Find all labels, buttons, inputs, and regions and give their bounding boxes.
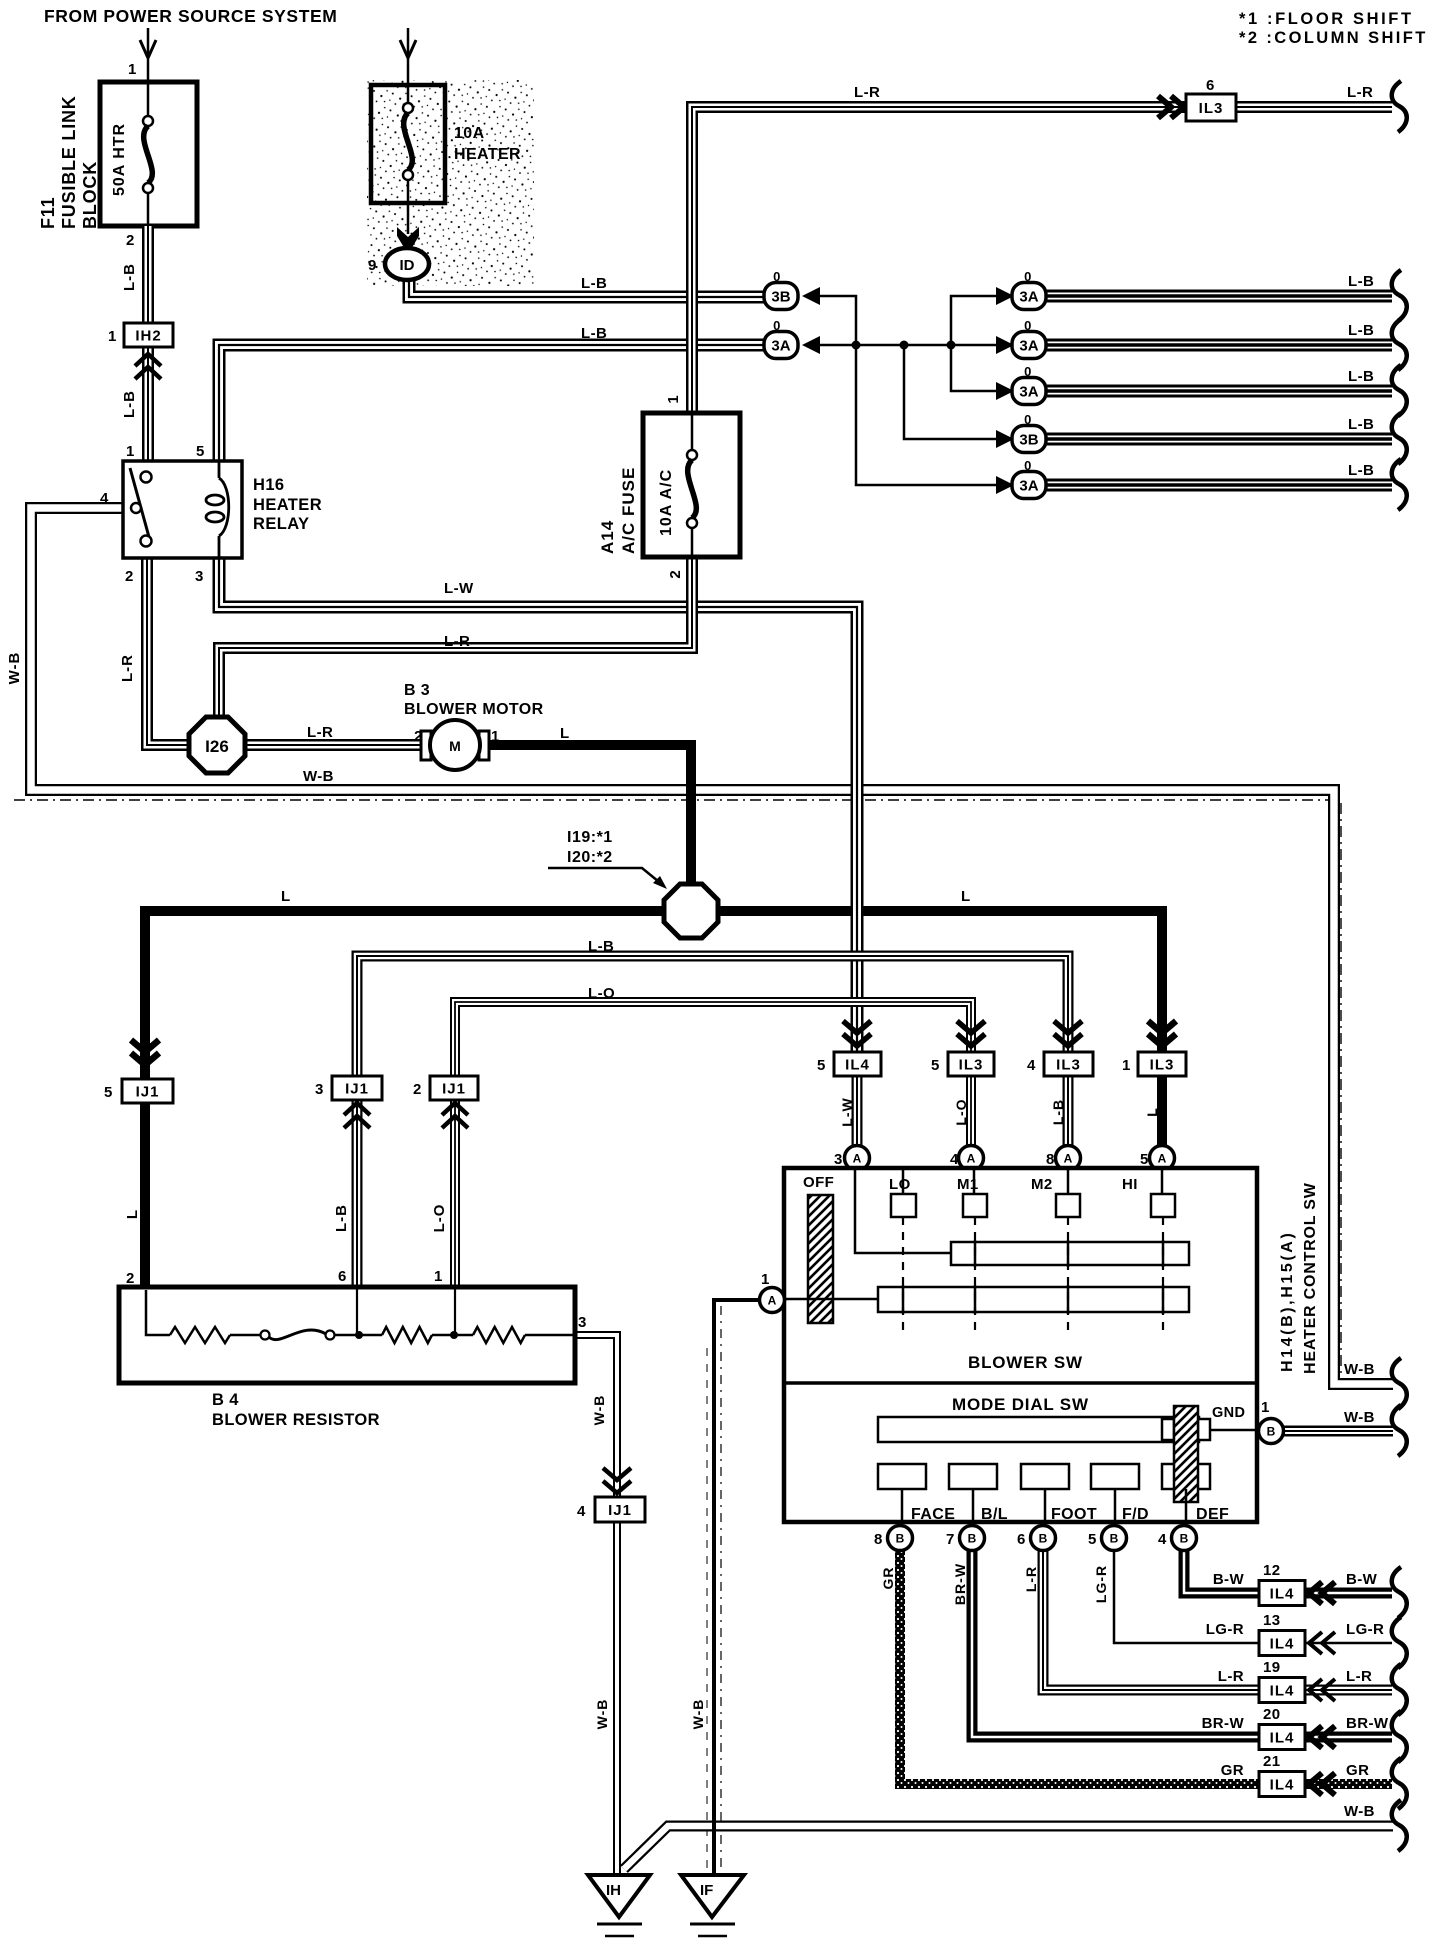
wire W-B from relay pin 4 left, down, along bottom of upper section, to right edge: [31, 508, 1393, 1384]
svg-text:10A A/C: 10A A/C: [658, 469, 675, 536]
svg-text:0: 0: [1024, 269, 1032, 284]
junction oval 3B: [802, 287, 820, 305]
svg-text:4: 4: [1027, 1057, 1036, 1074]
wire-continuation curly W-B GND: [1392, 1405, 1407, 1456]
svg-text:L-R: L-R: [119, 654, 136, 682]
svg-text:L-R: L-R: [1346, 1668, 1372, 1685]
link wire 3B to row-5 3A: [820, 296, 996, 485]
mode contact DEF: [1162, 1464, 1210, 1489]
connector 3 IJ1: [332, 1076, 382, 1100]
svg-text:HEATER: HEATER: [253, 496, 322, 514]
relay switch contact top: [141, 472, 152, 483]
wire L-B: 3 IJ1 down to blower resistor pin 6: [352, 1098, 363, 1287]
contact square HI: [1151, 1194, 1175, 1217]
svg-text:4: 4: [1158, 1531, 1167, 1548]
svg-text:0: 0: [1024, 364, 1032, 379]
svg-text:IJ1: IJ1: [136, 1084, 160, 1101]
svg-text:IH2: IH2: [135, 328, 161, 345]
wire L thick below 1 IL3 to switch terminal 5A: [1157, 1076, 1167, 1148]
wire B-W: switch pin 4B to connector IL4 pin 12: [1184, 1551, 1259, 1593]
svg-text:8: 8: [874, 1531, 883, 1548]
svg-text:1: 1: [108, 328, 117, 345]
switch internal: 3A contact feed line: [855, 1168, 951, 1253]
solid arrow into ID: [397, 227, 419, 254]
mode dial wiper tabs: [1162, 1419, 1174, 1440]
svg-text:LO: LO: [889, 1176, 911, 1193]
svg-text:GR: GR: [1221, 1762, 1244, 1779]
svg-text:IL4: IL4: [845, 1057, 870, 1074]
junction oval 3B row 4: [996, 430, 1014, 448]
svg-text:H14(B),H15(A): H14(B),H15(A): [1279, 1231, 1296, 1372]
svg-text:*1 :FLOOR SHIFT: *1 :FLOOR SHIFT: [1239, 10, 1414, 28]
switch terminal circle 8B: [888, 1526, 913, 1551]
junction dot resistor pin1: [450, 1331, 458, 1339]
blower/mode divider line: [784, 1381, 1257, 1385]
A/C fuse A14 box: [643, 413, 740, 557]
wire L-R: A/C fuse pin 2 down-left to connector I26: [219, 557, 692, 722]
svg-text:M1: M1: [957, 1176, 979, 1193]
svg-text:0: 0: [1024, 412, 1032, 427]
svg-text:L-W: L-W: [444, 580, 474, 597]
resistor element 2: [382, 1327, 432, 1343]
heater control switch H14/H15 box: [784, 1168, 1257, 1522]
svg-text:3A: 3A: [771, 338, 790, 355]
bar 2 division ticks: [903, 1285, 1163, 1314]
stipple shading around 10A HEATER fuse: [367, 80, 534, 286]
svg-text:DEF: DEF: [1196, 1506, 1229, 1523]
svg-text:F11: F11: [38, 197, 58, 229]
connector IL4 pin 19: [1259, 1678, 1305, 1703]
svg-text:3: 3: [315, 1081, 324, 1098]
resistor element 1: [170, 1327, 230, 1343]
thermal fuse in resistor: [261, 1331, 270, 1340]
connector I26 octagon: [189, 717, 245, 773]
wire L-B below 4 IL3 to switch terminal 8A: [1063, 1076, 1074, 1148]
svg-text:A: A: [967, 1152, 976, 1166]
svg-text:L-B: L-B: [1050, 1099, 1066, 1125]
svg-text:2: 2: [125, 568, 134, 585]
blower switch contact bar 1: [951, 1242, 1189, 1265]
wire L-B branch row 3 to right edge: [1047, 385, 1392, 398]
ground IF: [681, 1875, 744, 1917]
wire L-R: A/C fuse pin 1 up and right to connector IL3 pin 6 and right edge: [692, 107, 1392, 413]
svg-text:L-B: L-B: [1348, 462, 1374, 479]
connector 4 IJ1: [603, 1468, 631, 1493]
fuse element 10A A/C: [687, 450, 697, 528]
svg-text:3: 3: [195, 568, 204, 585]
dashed alignment line HI: [1162, 1217, 1164, 1332]
switch terminal circle 3A: [845, 1146, 870, 1171]
svg-text:L: L: [560, 725, 570, 742]
svg-text:OFF: OFF: [803, 1174, 834, 1191]
junction oval 3A row 2: [996, 336, 1014, 354]
contact square M2: [1056, 1194, 1080, 1217]
svg-text:L-R: L-R: [1023, 1566, 1039, 1592]
svg-text:W-B: W-B: [1344, 1803, 1375, 1820]
svg-text:B: B: [1039, 1532, 1048, 1546]
wire-continuation curly L-B row 3: [1392, 365, 1407, 416]
switch internal: stub above M2: [1067, 1168, 1070, 1194]
switch internal: stub above LO: [902, 1168, 905, 1194]
page continuation dash-dot border near IF wire: [720, 1306, 722, 1868]
svg-text:IF: IF: [700, 1882, 713, 1899]
wire W-B: blower resistor pin 3 to 4 IJ1 and down to ground IH: [575, 1335, 617, 1497]
svg-text:W-B: W-B: [594, 1699, 610, 1730]
switch terminal circle 6B: [1031, 1526, 1056, 1551]
svg-text:IL3: IL3: [1199, 100, 1224, 117]
connector 2 IJ1: [430, 1076, 478, 1100]
svg-text:L-B: L-B: [1348, 273, 1374, 290]
switch terminal circle 8A: [1056, 1146, 1081, 1171]
svg-text:B: B: [896, 1532, 905, 1546]
svg-text:L-O: L-O: [953, 1098, 969, 1125]
svg-text:B: B: [1110, 1532, 1119, 1546]
svg-text:L: L: [281, 888, 291, 905]
wire-continuation curly GR: [1392, 1758, 1407, 1809]
connector 4 IL3: [1054, 1021, 1082, 1046]
connector 5 IJ1: [131, 1040, 159, 1065]
svg-text:A: A: [853, 1152, 862, 1166]
junction oval 3A row 3: [996, 382, 1014, 400]
svg-text:I20:*2: I20:*2: [567, 849, 613, 866]
wire L-O: long horizontal to 2 IJ1 and 5 IL3: [455, 1002, 971, 1076]
wire L-B branch row 5 to right edge: [1047, 479, 1392, 492]
wire L-B: heater relay pin 5 up and right to junction 3A: [219, 345, 764, 461]
svg-text:A/C FUSE: A/C FUSE: [619, 467, 638, 554]
wire L-O below 5 IL3 to switch terminal 4A: [966, 1076, 976, 1148]
svg-text:LG-R: LG-R: [1346, 1621, 1384, 1638]
resistor element 3: [473, 1327, 525, 1343]
svg-text:BLOWER SW: BLOWER SW: [968, 1353, 1083, 1372]
svg-text:BR-W: BR-W: [1202, 1715, 1245, 1732]
switch terminal circle 4A: [959, 1146, 984, 1171]
svg-text:W-B: W-B: [6, 652, 23, 685]
svg-text:9: 9: [368, 257, 377, 274]
page continuation dash-dot border horizontal: [14, 799, 1333, 801]
wire L-B branch row 4 to right edge: [1047, 433, 1392, 446]
svg-text:IH: IH: [606, 1882, 621, 1899]
fuse element 50A HTR: [143, 116, 153, 193]
svg-text:2: 2: [413, 1081, 422, 1098]
svg-text:L-R: L-R: [854, 84, 880, 101]
svg-text:B 3: B 3: [404, 682, 430, 699]
svg-text:0: 0: [773, 318, 781, 333]
switch terminal circle 1A left: [760, 1288, 785, 1313]
chevron arrow on IH2 wire: [135, 354, 161, 379]
svg-text:BLOWER MOTOR: BLOWER MOTOR: [404, 701, 544, 718]
svg-text:0: 0: [773, 269, 781, 284]
svg-text:3B: 3B: [771, 289, 790, 306]
switch internal: stub above M1: [973, 1168, 976, 1194]
switch terminal circle 5B: [1102, 1526, 1127, 1551]
connector IL3 pin 6 top right: [1158, 96, 1184, 118]
junction oval 3A row 1: [996, 287, 1014, 305]
svg-text:IL3: IL3: [959, 1057, 984, 1074]
switch terminal circle 4B: [1172, 1526, 1197, 1551]
svg-text:L-W: L-W: [839, 1097, 855, 1126]
10A HEATER fuse box: [371, 85, 445, 203]
svg-text:1: 1: [128, 61, 137, 78]
wire L-B: ID connector to junction 3B: [409, 277, 764, 297]
wire to GND terminal: [1210, 1429, 1262, 1432]
wire W-B: long bottom horizontal from right edge joining IH ground wire: [624, 1826, 1393, 1869]
wire BR-W: switch pin 7B to connector IL4 pin 20: [972, 1551, 1259, 1737]
switch internal: 1A feed line: [784, 1298, 878, 1301]
connector 5 IL3: [957, 1021, 985, 1046]
svg-text:IJ1: IJ1: [345, 1081, 369, 1098]
svg-text:3: 3: [578, 1314, 587, 1331]
connector 5 IL4: [843, 1021, 871, 1046]
connector IL4 pin 21: [1259, 1772, 1305, 1797]
mode contact FOOT: [1021, 1464, 1069, 1489]
blower switch contact bar 2: [878, 1287, 1189, 1312]
dashed alignment line M2: [1067, 1217, 1069, 1332]
link wire branch to row-3 3A: [951, 345, 996, 391]
svg-text:L-R: L-R: [1347, 84, 1373, 101]
wire-continuation curly W-B upper: [1392, 1358, 1407, 1409]
svg-text:3B: 3B: [1019, 432, 1038, 449]
resistor internal wiring: [146, 1290, 170, 1335]
resistor pin 6 internal lead: [356, 1289, 358, 1335]
connector IL4 pin 13: [1259, 1631, 1305, 1656]
svg-text:20: 20: [1263, 1706, 1281, 1723]
svg-text:IJ1: IJ1: [608, 1502, 632, 1519]
svg-text:5: 5: [1088, 1531, 1097, 1548]
svg-text:FACE: FACE: [911, 1506, 955, 1523]
svg-text:W-B: W-B: [303, 768, 334, 785]
svg-text:1: 1: [434, 1268, 443, 1285]
wire-continuation curly L-R: [1392, 1664, 1407, 1715]
page continuation dash-dot border vertical right: [1340, 803, 1342, 1378]
junction dot B: [900, 341, 909, 350]
svg-text:L-B: L-B: [333, 1204, 350, 1232]
power feed arrow into 10A HEATER fuse: [407, 28, 410, 85]
wire L-B branch row 2 to right edge: [1047, 339, 1392, 352]
svg-text:FOOT: FOOT: [1051, 1506, 1097, 1523]
svg-text:I26: I26: [205, 737, 229, 756]
wire-continuation curly L-B row 1: [1392, 270, 1407, 321]
switch terminal circle GND B: [1259, 1419, 1284, 1444]
link wire branch to row-4 3B: [904, 345, 996, 439]
wire W-B: heater control switch terminal 1A to ground IF: [714, 1300, 760, 1875]
svg-text:GR: GR: [880, 1567, 896, 1590]
svg-text:2: 2: [667, 569, 684, 578]
heater relay H16 box: [123, 461, 242, 558]
mode dial wiper hatched bar: [1174, 1406, 1198, 1502]
ground IH: [588, 1875, 650, 1917]
link wire branch to row-1 3A: [951, 296, 996, 345]
svg-text:B: B: [1180, 1532, 1189, 1546]
svg-text:RELAY: RELAY: [253, 515, 309, 533]
svg-text:A: A: [1064, 1152, 1073, 1166]
svg-text:L: L: [1144, 1107, 1160, 1117]
connector I19/I20 octagon on L wire: [664, 884, 718, 938]
svg-text:L-B: L-B: [1348, 416, 1374, 433]
svg-text:19: 19: [1263, 1659, 1281, 1676]
svg-text:MODE DIAL SW: MODE DIAL SW: [952, 1395, 1089, 1414]
svg-text:L-B: L-B: [1348, 368, 1374, 385]
svg-text:L-B: L-B: [588, 938, 614, 955]
svg-text:4: 4: [950, 1151, 959, 1168]
svg-text:5: 5: [817, 1057, 826, 1074]
svg-text:L-B: L-B: [581, 325, 607, 342]
contact square LO: [891, 1194, 916, 1217]
svg-text:6: 6: [1206, 77, 1215, 94]
wire-continuation curly BR-W: [1392, 1711, 1407, 1762]
svg-text:A: A: [768, 1294, 777, 1308]
svg-text:10A: 10A: [454, 125, 485, 142]
wire W-B: mode dial GND terminal B to right edge: [1284, 1426, 1393, 1437]
connector 1 IL3: [1148, 1021, 1176, 1046]
svg-text:1: 1: [665, 394, 682, 403]
svg-text:5: 5: [931, 1057, 940, 1074]
wire-continuation curly L-R: [1392, 81, 1407, 132]
connector IL4 pin 20: [1259, 1725, 1305, 1750]
svg-text:L-R: L-R: [1218, 1668, 1244, 1685]
svg-text:3A: 3A: [1019, 338, 1038, 355]
svg-text:L-R: L-R: [444, 633, 470, 650]
svg-text:HI: HI: [1122, 1176, 1138, 1193]
svg-text:ID: ID: [400, 257, 415, 274]
junction dot C: [947, 341, 956, 350]
svg-text:IL4: IL4: [1270, 1730, 1295, 1747]
wire from fuse to ID: [407, 203, 410, 234]
svg-text:5: 5: [196, 443, 205, 460]
svg-text:L-B: L-B: [1348, 322, 1374, 339]
svg-text:A: A: [1158, 1152, 1167, 1166]
wire L-B: F11 pin 2 to IH2 to relay pin 1: [142, 226, 154, 461]
svg-text:GR: GR: [1346, 1762, 1369, 1779]
wire GR: switch pin 8B to connector IL4 pin 21: [900, 1551, 1259, 1784]
svg-text:1: 1: [1261, 1399, 1270, 1416]
svg-text:HEATER: HEATER: [454, 146, 521, 163]
svg-text:B 4: B 4: [212, 1391, 239, 1409]
wire L-W below 5 IL4 to switch terminal 3A: [852, 1076, 863, 1148]
svg-text:3: 3: [834, 1151, 843, 1168]
mode contact stubs to pins: [901, 1489, 904, 1525]
wire L-O: 2 IJ1 down to blower resistor pin 1: [450, 1098, 460, 1287]
svg-text:B-W: B-W: [1346, 1571, 1378, 1588]
connector ID oval: [385, 248, 429, 280]
OFF position hatched bar: [808, 1195, 833, 1323]
svg-text:L-O: L-O: [588, 985, 615, 1002]
svg-text:IL4: IL4: [1270, 1586, 1295, 1603]
svg-text:IL4: IL4: [1270, 1777, 1295, 1794]
wire L thick: main horizontal rail with drops to 5 IJ1 and 1 IL3: [145, 911, 1162, 1287]
blower resistor B4 box: [119, 1287, 575, 1383]
svg-text:M2: M2: [1031, 1176, 1053, 1193]
resistor pin 1 internal lead: [454, 1289, 456, 1335]
wire LG-R: switch pin 5B to connector IL4 pin 13: [1114, 1551, 1259, 1643]
svg-text:W-B: W-B: [690, 1699, 706, 1730]
svg-text:IL4: IL4: [1270, 1636, 1295, 1653]
svg-text:FROM POWER SOURCE SYSTEM: FROM POWER SOURCE SYSTEM: [44, 6, 337, 26]
svg-text:IJ1: IJ1: [442, 1081, 466, 1098]
svg-text:2: 2: [414, 728, 423, 745]
svg-text:6: 6: [338, 1268, 347, 1285]
relay coil: [206, 461, 229, 558]
svg-text:L-R: L-R: [307, 724, 333, 741]
svg-text:1: 1: [1122, 1057, 1131, 1074]
svg-text:7: 7: [946, 1531, 955, 1548]
svg-text:A14: A14: [598, 520, 617, 554]
connector IL4 pin 12: [1259, 1581, 1305, 1606]
svg-text:50A HTR: 50A HTR: [111, 123, 128, 196]
svg-text:1: 1: [761, 1271, 770, 1288]
svg-text:W-B: W-B: [1344, 1361, 1375, 1378]
svg-text:L-B: L-B: [581, 275, 607, 292]
wire-continuation curly B-W: [1392, 1567, 1407, 1618]
wire-continuation curly L-B row 5: [1392, 459, 1407, 510]
wire W-B: IH ground wire lower segment: [613, 1795, 621, 1875]
svg-text:LG-R: LG-R: [1093, 1565, 1109, 1603]
svg-text:3A: 3A: [1019, 384, 1038, 401]
dashed alignment line LO: [902, 1217, 904, 1332]
svg-text:B/L: B/L: [981, 1506, 1008, 1523]
power feed arrow into F11: [147, 28, 150, 82]
svg-text:4: 4: [577, 1503, 586, 1520]
svg-text:L-O: L-O: [431, 1204, 448, 1233]
contact square M1: [963, 1194, 987, 1217]
junction dot A: [852, 341, 861, 350]
svg-text:M: M: [449, 738, 461, 754]
wire-continuation curly L-B row 4: [1392, 413, 1407, 464]
svg-text:2: 2: [126, 1270, 135, 1287]
dashed alignment line M1: [974, 1217, 976, 1332]
svg-text:5: 5: [1140, 1151, 1149, 1168]
switch terminal circle 7B: [960, 1526, 985, 1551]
svg-text:L: L: [124, 1209, 141, 1219]
svg-text:B-W: B-W: [1213, 1571, 1245, 1588]
junction dot resistor pin6: [355, 1331, 363, 1339]
svg-text:B: B: [968, 1532, 977, 1546]
svg-text:8: 8: [1046, 1151, 1055, 1168]
relay pin4 contact: [131, 503, 141, 513]
bar 1 division ticks: [975, 1240, 1163, 1267]
wire-continuation curly LG-R: [1392, 1617, 1407, 1668]
svg-text:BLOWER RESISTOR: BLOWER RESISTOR: [212, 1411, 380, 1429]
relay switch contact bottom: [141, 536, 152, 547]
mode contact F/D: [1091, 1464, 1139, 1489]
svg-text:21: 21: [1263, 1753, 1281, 1770]
svg-text:BR-W: BR-W: [1346, 1715, 1389, 1732]
wire-continuation curly W-B bottom: [1392, 1800, 1407, 1851]
fusible link F11 50A HTR block: [100, 82, 197, 226]
mode contact FACE: [878, 1464, 926, 1489]
svg-text:12: 12: [1263, 1562, 1281, 1579]
switch terminal circle 5A: [1150, 1146, 1175, 1171]
svg-text:3A: 3A: [1019, 478, 1038, 495]
svg-text:6: 6: [1017, 1531, 1026, 1548]
wire L-B: long horizontal to 3 IJ1 and 4 IL3: [357, 956, 1068, 1076]
svg-text:F/D: F/D: [1122, 1506, 1149, 1523]
svg-text:HEATER CONTROL SW: HEATER CONTROL SW: [1302, 1182, 1319, 1374]
svg-text:B: B: [1267, 1425, 1276, 1439]
svg-text:LG-R: LG-R: [1206, 1621, 1244, 1638]
wire L-R: heater relay pin 2 down to I26: [147, 558, 194, 745]
svg-text:0: 0: [1024, 318, 1032, 333]
svg-text:H16: H16: [253, 476, 284, 494]
svg-text:BR-W: BR-W: [952, 1563, 968, 1605]
svg-text:5: 5: [104, 1084, 113, 1101]
junction oval 3A row 5: [996, 476, 1014, 494]
blower motor B3: [421, 720, 489, 770]
mode contact B/L: [949, 1464, 997, 1489]
link wire 3A to row-2 3A: [820, 344, 996, 347]
mode dial contact bar: [878, 1417, 1199, 1442]
svg-text:IL3: IL3: [1056, 1057, 1081, 1074]
wire L-R: switch pin 6B to connector IL4 pin 19: [1043, 1551, 1259, 1690]
